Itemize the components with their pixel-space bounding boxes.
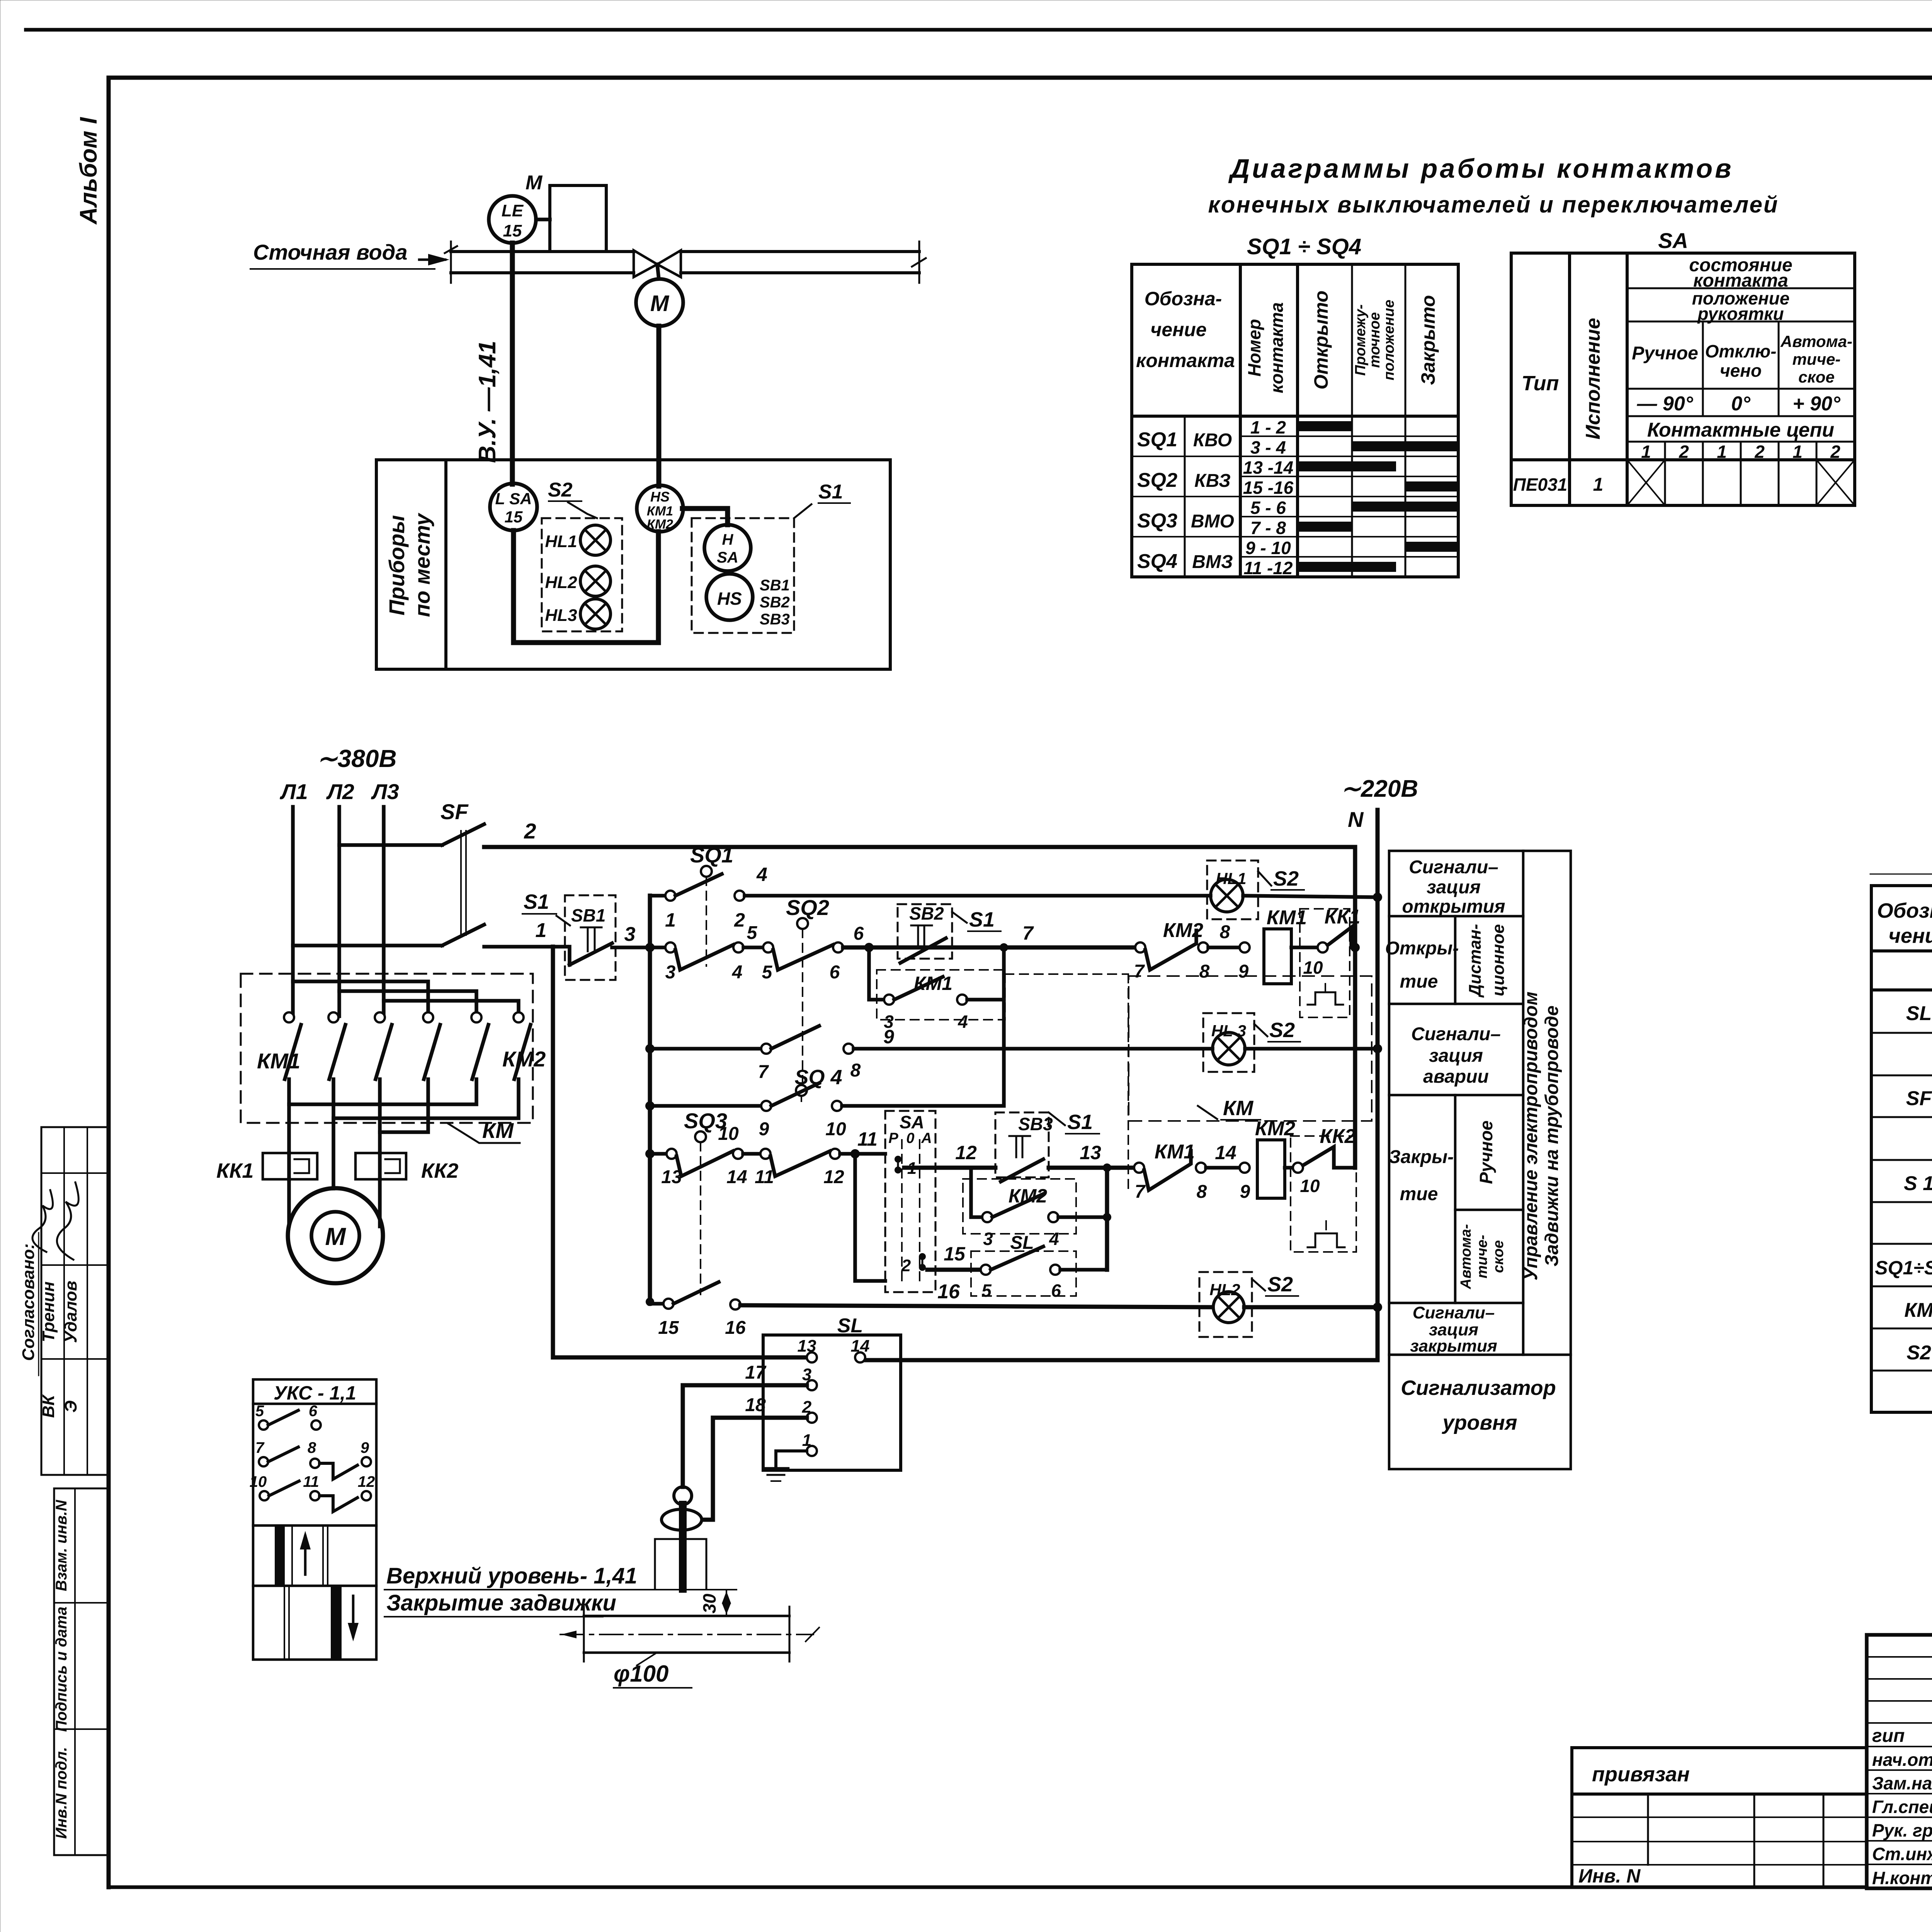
svg-text:Промежу-: Промежу- [1352, 304, 1369, 376]
flow arrow [419, 259, 445, 261]
svg-text:SL: SL [837, 1315, 863, 1337]
svg-text:L SА: L SА [495, 490, 532, 508]
svg-text:9: 9 [1240, 1182, 1250, 1202]
pushbutton SB1 dashed box [565, 895, 616, 980]
KM1 main contact pole 3 [375, 1012, 385, 1022]
pipe right section top [681, 250, 919, 253]
svg-text:11: 11 [755, 1167, 774, 1187]
lamp HL3 box [1203, 1013, 1254, 1072]
svg-text:12: 12 [955, 1142, 977, 1163]
lamp HL1 box [1207, 861, 1258, 919]
ground symbol [764, 1467, 788, 1470]
svg-text:2: 2 [1830, 442, 1840, 462]
svg-text:Ст.инж.: Ст.инж. [1872, 1844, 1932, 1864]
SA contact position 2 [919, 1253, 926, 1260]
svg-text:НL2: НL2 [1209, 1281, 1240, 1299]
svg-text:1: 1 [1641, 442, 1651, 462]
svg-text:контакта: контакта [1136, 350, 1235, 371]
svg-text:S 1: S 1 [1904, 1172, 1932, 1195]
svg-text:КМ1: КМ1 [647, 504, 673, 519]
wire to SL terminal 13 [553, 1355, 807, 1360]
svg-text:16: 16 [725, 1318, 746, 1338]
svg-text:8: 8 [1199, 961, 1210, 982]
svg-text:10: 10 [1300, 1176, 1320, 1196]
svg-text:15 -16: 15 -16 [1243, 478, 1294, 498]
svg-text:Сигнали–: Сигнали– [1413, 1303, 1495, 1322]
contactor group dashed box KM [241, 974, 533, 1123]
crossover link poles 3-4 [380, 1079, 428, 1132]
svg-text:SВ3: SВ3 [1018, 1114, 1053, 1134]
svg-text:LЕ: LЕ [502, 201, 524, 220]
node 11 branch [850, 1149, 860, 1158]
wire SA to SB3 [904, 1166, 995, 1170]
svg-text:5: 5 [255, 1403, 264, 1420]
svg-text:Тренин: Тренин [39, 1281, 58, 1342]
SL terminal 2 / wire 18 [807, 1413, 817, 1423]
svg-text:∼220В: ∼220В [1341, 776, 1418, 802]
crossover link poles 2-6 [333, 1079, 519, 1118]
svg-text:6: 6 [309, 1403, 318, 1420]
thermal contact KK1 [1328, 927, 1355, 947]
svg-text:КМ: КМ [1223, 1097, 1253, 1120]
float sensor ball [674, 1487, 692, 1505]
instrument LSA 15 [490, 483, 537, 531]
svg-text:КМ2: КМ2 [1163, 919, 1203, 942]
wire L1 to SF lower pole [293, 944, 442, 947]
lamp group dashed box (S2) [542, 518, 622, 631]
svg-text:4: 4 [756, 864, 767, 885]
branch to SA auto position [855, 1154, 885, 1281]
wire from motor down [656, 326, 662, 486]
inner frame bottom (left of title block) [109, 1885, 1867, 1889]
svg-text:конечных выключателей и пере: конечных выключателей и переключателей [1208, 192, 1779, 218]
KK1 dashed box with heater [1300, 909, 1350, 1017]
label S2 of HL3 [1254, 1024, 1267, 1036]
svg-text:КМ1: КМ1 [257, 1049, 300, 1073]
SL terminal box [763, 1335, 901, 1470]
svg-text:Управление электроприводом: Управление электроприводом [1521, 992, 1541, 1281]
svg-text:8: 8 [308, 1439, 316, 1456]
SB1 plunger [581, 927, 602, 929]
svg-text:Закры-: Закры- [1389, 1147, 1454, 1167]
left margin: approval table [41, 1127, 109, 1475]
svg-text:чено: чено [1720, 361, 1762, 381]
svg-text:рукоятки: рукоятки [1697, 304, 1784, 324]
svg-text:12: 12 [823, 1167, 844, 1187]
svg-text:9: 9 [361, 1439, 369, 1456]
svg-text:6: 6 [854, 923, 864, 944]
svg-text:5: 5 [747, 923, 758, 943]
svg-text:13: 13 [1080, 1142, 1101, 1163]
svg-text:НL2: НL2 [545, 573, 577, 592]
instruments-by-place box: Приборы по месту [376, 460, 890, 669]
top bus wire 2 [484, 847, 1355, 1168]
svg-text:Удалов: Удалов [61, 1281, 80, 1343]
svg-text:SА: SА [717, 549, 738, 566]
svg-text:гип: гип [1872, 1726, 1905, 1746]
svg-text:Сигнализатор: Сигнализатор [1401, 1376, 1556, 1400]
motor M [288, 1188, 383, 1283]
svg-text:М: М [325, 1223, 346, 1250]
svg-text:зация: зация [1429, 1046, 1483, 1066]
dimension 30 [726, 1590, 727, 1616]
svg-text:S2: S2 [1267, 1273, 1293, 1296]
wire 3 (SB1 to rail) [612, 946, 653, 949]
svg-text:14: 14 [851, 1337, 870, 1355]
svg-text:5: 5 [981, 1281, 992, 1301]
neutral rail N [865, 810, 1378, 1360]
coil KM2 [1257, 1140, 1285, 1198]
coil KM1 [1264, 929, 1291, 984]
svg-text:КМ: КМ [1904, 1299, 1932, 1321]
SQ contact table grid [1132, 264, 1458, 577]
svg-text:SQ2: SQ2 [786, 895, 829, 920]
svg-text:3: 3 [983, 1229, 993, 1249]
svg-text:SQ3: SQ3 [1137, 510, 1177, 532]
svg-text:18: 18 [745, 1395, 766, 1415]
lamp HL3 [1213, 1032, 1245, 1065]
lamp HL3 [580, 599, 611, 629]
svg-text:1: 1 [536, 919, 547, 942]
KM2 main contact pole 4 [423, 1012, 433, 1022]
svg-text:Откры-: Откры- [1385, 938, 1459, 959]
svg-text:КВО: КВО [1193, 430, 1232, 451]
svg-text:11: 11 [303, 1473, 319, 1490]
svg-text:+ 90°: + 90° [1793, 393, 1841, 415]
svg-text:Н: Н [722, 531, 734, 548]
svg-text:S2: S2 [1906, 1342, 1931, 1364]
pipe bottom line [451, 271, 634, 274]
lamp HL2 box [1199, 1272, 1252, 1337]
SA contact position 1 [895, 1156, 901, 1163]
svg-text:7: 7 [758, 1062, 769, 1082]
svg-text:уровня: уровня [1441, 1411, 1517, 1434]
node HL3-N [1373, 1044, 1382, 1053]
svg-text:5 - 6: 5 - 6 [1250, 498, 1286, 518]
svg-text:положение: положение [1381, 300, 1397, 381]
svg-text:7: 7 [1135, 1182, 1146, 1202]
svg-text:А: А [921, 1130, 932, 1146]
lamp HL2 [1213, 1292, 1244, 1323]
svg-text:2: 2 [1679, 442, 1689, 462]
svg-text:КК2: КК2 [421, 1159, 458, 1182]
X mark circuit 6 [1816, 460, 1855, 505]
svg-text:М: М [650, 291, 670, 316]
svg-text:6: 6 [1051, 1281, 1061, 1301]
pipe end ticks [918, 241, 920, 283]
lamp HL2 [580, 566, 611, 596]
UKS level chart [253, 1524, 376, 1527]
node HL1-N [1373, 893, 1382, 902]
svg-text:1: 1 [1717, 442, 1727, 462]
self-hold contact KM2 [971, 1168, 982, 1217]
svg-text:S1: S1 [818, 481, 843, 503]
wire L2 to SF upper pole [339, 843, 442, 847]
inner frame left [107, 78, 111, 1887]
svg-text:НL1: НL1 [545, 532, 577, 551]
rung B wire (open circuit) [650, 946, 665, 949]
breaker SF lower blade [442, 925, 484, 946]
svg-text:15: 15 [505, 508, 523, 526]
svg-text:8: 8 [1197, 1182, 1207, 1202]
svg-text:закрытия: закрытия [1410, 1337, 1497, 1355]
svg-text:аварии: аварии [1423, 1066, 1489, 1087]
svg-text:Верхний уровень- 1,41: Верхний уровень- 1,41 [386, 1563, 637, 1588]
UKS contact 7-8-9 [259, 1457, 268, 1466]
svg-text:3: 3 [624, 923, 636, 946]
svg-text:Л1: Л1 [279, 779, 308, 804]
UKS contact 5-6 [259, 1420, 268, 1430]
svg-text:Дистан-: Дистан- [1466, 924, 1485, 998]
svg-text:по месту: по месту [410, 512, 434, 617]
svg-text:В.У. —1,41: В.У. —1,41 [474, 341, 501, 463]
valve (bowtie) [634, 250, 657, 277]
inner frame top [109, 76, 1932, 80]
instrument NS KM1 KM2 [637, 485, 683, 532]
svg-text:SQ1÷SQ4: SQ1÷SQ4 [1875, 1257, 1932, 1279]
control station dashed box S1 [692, 518, 794, 633]
svg-text:15: 15 [944, 1243, 966, 1265]
SB1 blade [570, 943, 612, 965]
svg-text:Номер: Номер [1244, 319, 1264, 376]
self-hold contact KM1 [869, 947, 884, 1000]
svg-text:Н.контр.: Н.контр. [1872, 1868, 1932, 1888]
KM1 main contact pole 2 [328, 1012, 338, 1022]
wire 13 (SB3 to KM1 contact) [1049, 1166, 1134, 1170]
svg-text:13: 13 [798, 1337, 816, 1355]
pipe centerline [560, 1634, 813, 1635]
svg-text:зация: зация [1427, 877, 1481, 898]
svg-text:Открыто: Открыто [1310, 291, 1332, 389]
svg-text:0°: 0° [1731, 393, 1751, 415]
pipe inlet flange ticks [450, 241, 452, 283]
svg-text:тиче-: тиче- [1793, 350, 1841, 368]
svg-text:Ручное: Ручное [1632, 343, 1698, 364]
label S1 of SB3 group [1049, 1112, 1065, 1125]
svg-text:8: 8 [1220, 922, 1230, 942]
wire node to SL circuit [551, 947, 555, 1357]
SB2 plunger [911, 925, 932, 927]
label KM with leader [448, 1124, 520, 1143]
rung F wire 16 to lamp HL2 [650, 1302, 663, 1306]
svg-text:9: 9 [1238, 961, 1249, 982]
svg-text:1: 1 [665, 909, 676, 931]
svg-text:тие: тие [1400, 1184, 1438, 1204]
breaker SF upper blade [442, 824, 484, 845]
svg-text:1: 1 [802, 1431, 811, 1450]
heavy wiring LSA to NS [514, 531, 658, 643]
svg-text:Л3: Л3 [371, 779, 399, 804]
rung E wire (close circuit) [650, 1152, 667, 1156]
svg-text:13: 13 [661, 1167, 682, 1187]
svg-text:2: 2 [901, 1256, 911, 1275]
SB2 blade [900, 938, 946, 963]
svg-text:Ручное: Ручное [1476, 1121, 1496, 1184]
svg-text:7: 7 [255, 1439, 265, 1456]
svg-text:SQ1 ÷ SQ4: SQ1 ÷ SQ4 [1247, 234, 1361, 259]
wire 1 (SF to SB1) [484, 945, 567, 949]
svg-text:чение: чение [1150, 319, 1207, 340]
pushbutton head H SA [704, 525, 751, 571]
svg-text:Сточная вода: Сточная вода [253, 240, 407, 264]
closed-state bars [1298, 421, 1352, 431]
svg-text:13 -14: 13 -14 [1243, 457, 1293, 478]
wire 14 from SL to N [855, 1352, 865, 1362]
svg-text:Рук. гр.: Рук. гр. [1872, 1820, 1932, 1840]
svg-text:тиче-: тиче- [1474, 1235, 1490, 1279]
svg-text:SF: SF [1906, 1087, 1932, 1110]
svg-text:Сигнали–: Сигнали– [1411, 1024, 1501, 1044]
signature rows [1867, 1656, 1932, 1658]
svg-text:2: 2 [524, 819, 536, 843]
svg-text:ВМО: ВМО [1191, 511, 1234, 532]
svg-text:Альбом I: Альбом I [75, 117, 102, 225]
svg-text:Контактные цепи: Контактные цепи [1647, 419, 1834, 441]
svg-text:S1: S1 [1067, 1111, 1093, 1134]
contactor group dashed enclosure KM [1129, 976, 1372, 1121]
jumper L3 to KM2 pole 6 [384, 1001, 519, 1013]
svg-text:SQ4: SQ4 [1137, 550, 1177, 573]
svg-text:9: 9 [883, 1026, 894, 1048]
svg-text:SQ1: SQ1 [1137, 429, 1177, 451]
svg-text:3 - 4: 3 - 4 [1250, 437, 1286, 457]
svg-text:Исполнение: Исполнение [1582, 318, 1604, 440]
svg-text:Отклю-: Отклю- [1705, 341, 1777, 361]
KM1 main contact pole 1 [284, 1012, 294, 1022]
svg-text:SQ1: SQ1 [690, 843, 733, 867]
crossover link poles 1-5 [289, 1079, 476, 1104]
svg-text:КК1: КК1 [216, 1159, 253, 1182]
KK2 dashed box with heater [1291, 1136, 1356, 1252]
svg-text:Закрытие задвижки: Закрытие задвижки [386, 1590, 616, 1616]
svg-text:4: 4 [957, 1012, 968, 1032]
svg-text:7: 7 [1134, 961, 1145, 982]
svg-text:УКС - 1,1: УКС - 1,1 [274, 1382, 356, 1404]
KM2 main contact pole 6 [514, 1012, 524, 1022]
svg-text:30: 30 [699, 1594, 719, 1614]
svg-text:2: 2 [802, 1398, 812, 1417]
svg-text:КМ2: КМ2 [1009, 1185, 1047, 1207]
svg-text:15: 15 [503, 221, 522, 240]
svg-text:ское: ское [1798, 368, 1835, 386]
svg-text:чение: чение [1888, 924, 1932, 947]
svg-text:16: 16 [937, 1281, 960, 1303]
svg-text:Автома-: Автома- [1458, 1224, 1474, 1289]
pipe right section bottom [681, 271, 919, 274]
svg-text:N: N [1348, 807, 1364, 832]
thermal element KK1 [263, 1153, 317, 1179]
svg-text:Автома-: Автома- [1780, 332, 1852, 350]
label S1 of SB2 [952, 912, 967, 923]
SB3 plunger [1009, 1135, 1030, 1137]
svg-text:φ100: φ100 [614, 1661, 668, 1687]
svg-text:9: 9 [759, 1119, 769, 1139]
svg-text:нач.отд.: нач.отд. [1872, 1750, 1932, 1770]
svg-text:12: 12 [358, 1473, 375, 1490]
svg-text:SF: SF [440, 799, 469, 824]
svg-text:14: 14 [1215, 1142, 1236, 1163]
jumper L2 to KM2 pole 5 [339, 991, 476, 1013]
svg-text:Инв.N подл.: Инв.N подл. [53, 1747, 70, 1839]
svg-text:SВ2: SВ2 [760, 594, 790, 611]
svg-text:ционное: ционное [1489, 924, 1508, 997]
well walls [654, 1539, 656, 1589]
float [662, 1509, 702, 1530]
svg-text:Сигнали–: Сигнали– [1409, 857, 1498, 878]
svg-text:S2: S2 [548, 479, 573, 501]
svg-text:М: М [526, 172, 543, 194]
svg-text:2: 2 [734, 909, 745, 931]
SL terminal 3 / wire 17 [807, 1380, 817, 1390]
svg-text:SА: SА [900, 1112, 924, 1132]
pipe under sensor [584, 1615, 789, 1617]
svg-text:ское: ское [1490, 1240, 1507, 1273]
breaker SF mechanical link [460, 831, 462, 935]
linked-project table: привязан [1572, 1748, 1867, 1887]
valve actuator motor M [657, 264, 659, 279]
svg-text:привязан: привязан [1592, 1763, 1690, 1786]
node rail rung B [645, 943, 655, 952]
phase wire L2 [337, 807, 341, 1016]
svg-text:3: 3 [802, 1365, 811, 1384]
svg-text:Подпись и дата: Подпись и дата [53, 1607, 70, 1732]
svg-text:10: 10 [718, 1124, 739, 1144]
probe rod [679, 1505, 687, 1589]
svg-text:ВМЗ: ВМЗ [1192, 552, 1233, 572]
svg-text:КМ1: КМ1 [1267, 906, 1307, 929]
svg-text:1: 1 [1593, 474, 1604, 495]
X mark circuit 1 [1627, 460, 1665, 505]
svg-text:ВК: ВК [39, 1394, 58, 1418]
svg-text:SВ1: SВ1 [571, 905, 605, 925]
parts table [1871, 886, 1932, 1412]
svg-text:7 - 8: 7 - 8 [1250, 518, 1286, 538]
svg-text:1: 1 [1793, 442, 1803, 462]
svg-text:15: 15 [658, 1318, 679, 1338]
svg-text:КМ1: КМ1 [1155, 1141, 1195, 1163]
svg-text:тие: тие [1400, 971, 1438, 992]
svg-text:НL3: НL3 [545, 606, 577, 625]
SB3 blade [1001, 1159, 1043, 1182]
svg-text:17: 17 [745, 1362, 767, 1383]
UKS contact 10-11-12 [260, 1491, 269, 1500]
svg-text:SА: SА [1658, 228, 1688, 253]
svg-text:SQ2: SQ2 [1137, 469, 1177, 492]
rung D wire [650, 1104, 761, 1108]
node rail rung D [645, 1101, 655, 1111]
svg-text:КМ2: КМ2 [502, 1047, 546, 1071]
contactor KM1 NC contact on rung E [1134, 1163, 1144, 1173]
wire B.У.-1,41 down from LE [510, 243, 515, 484]
level sensor LE 15 [489, 196, 536, 243]
label S2 of HL2 [1252, 1279, 1265, 1291]
title block outer [1867, 1635, 1932, 1888]
svg-text:10: 10 [250, 1473, 267, 1490]
svg-text:S1: S1 [524, 890, 549, 913]
SA table grid [1511, 253, 1855, 505]
svg-text:10: 10 [1303, 957, 1323, 978]
svg-text:14: 14 [726, 1167, 747, 1187]
svg-text:5: 5 [762, 962, 773, 983]
contactor KM2 NC contact on rung B [1135, 942, 1145, 952]
svg-text:Л2: Л2 [326, 779, 354, 804]
selector SA dashed box [885, 1111, 935, 1292]
svg-text:Взам. инв.N: Взам. инв.N [53, 1500, 70, 1591]
svg-text:ПЕ031: ПЕ031 [1513, 474, 1568, 495]
phase wire L3 [382, 807, 386, 1016]
svg-text:КВЗ: КВЗ [1194, 471, 1231, 491]
KM2 main contact pole 5 [471, 1012, 481, 1022]
